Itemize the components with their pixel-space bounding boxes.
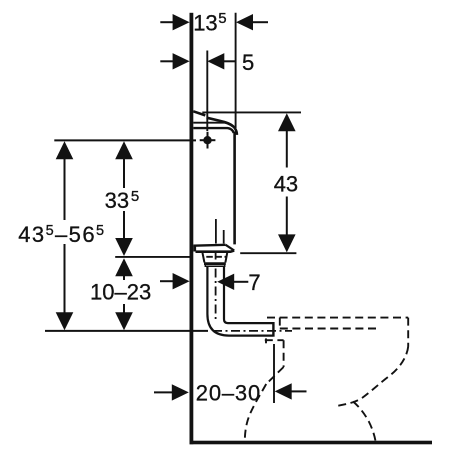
dim 5 right leader xyxy=(223,60,235,62)
cistern body top edge xyxy=(193,128,234,133)
dim 7 left arrowhead xyxy=(173,273,190,289)
hidden line in nut (dashed) xyxy=(206,256,226,258)
pipe vertical centerline (dash-dot) xyxy=(215,251,217,323)
svg-text:7: 7 xyxy=(248,270,260,295)
toilet pedestal front dashed xyxy=(245,384,266,441)
dim 43 lower stem xyxy=(286,197,288,236)
dim 5 right arrowhead xyxy=(207,53,224,69)
dim 43.5-56.5 top arrowhead xyxy=(56,141,74,159)
flush valve nut bottom band xyxy=(204,262,226,265)
dim 10-23 lower stem xyxy=(123,304,125,314)
cistern inner line 2 xyxy=(223,230,225,244)
dim 43 upper stem xyxy=(286,130,288,168)
dim 7 right arrowhead xyxy=(217,274,234,290)
svg-text:435–565: 435–565 xyxy=(18,222,105,247)
toilet spud left vertical dashed xyxy=(265,338,267,343)
dim 20-30 left leader xyxy=(154,391,173,393)
dim 10-23 top arrowhead xyxy=(115,258,133,276)
cistern inner line 1 xyxy=(215,219,217,244)
toilet spud right vertical dashed xyxy=(283,340,285,367)
dim 7 right leader xyxy=(233,281,248,283)
toilet spud bottom line dashed xyxy=(265,339,284,341)
dim 20-30 extension line xyxy=(273,344,275,403)
toilet spud slant dashed xyxy=(266,367,283,384)
dim 33.5 lower stem xyxy=(123,211,125,239)
flush valve collar xyxy=(205,265,224,266)
dim 20-30 left arrowhead xyxy=(172,384,189,400)
dim 5 left leader xyxy=(160,60,174,62)
dim 43.5-56.5 upper stem xyxy=(64,158,66,220)
mounting hole crosshair circle xyxy=(203,136,211,144)
flush pipe outer (left) wall and elbow xyxy=(207,266,272,335)
toilet top rim dashed xyxy=(267,317,408,319)
flush pipe end cap xyxy=(272,322,274,337)
svg-text:43: 43 xyxy=(274,172,298,197)
dim 43 bottom arrowhead xyxy=(278,234,296,252)
toilet lower rim line dashed xyxy=(280,328,378,330)
cistern lid seam line xyxy=(193,122,226,124)
dim 43 top arrowhead xyxy=(278,113,296,131)
left middle reference line xyxy=(115,256,190,258)
crosshair vertical tick xyxy=(207,132,209,149)
dim 7 left leader xyxy=(160,280,174,282)
svg-text:5: 5 xyxy=(131,188,139,205)
svg-text:13: 13 xyxy=(193,11,217,36)
toilet rim right vertical dashed xyxy=(407,318,409,347)
cistern front face xyxy=(233,132,236,245)
dim 13.5 left leader xyxy=(160,21,174,23)
left top reference line xyxy=(54,139,196,141)
dim 5 extension line xyxy=(206,51,208,132)
cistern lid top front curve xyxy=(207,118,237,135)
toilet rim left vertical dashed xyxy=(279,318,281,329)
flush valve nut left side xyxy=(203,253,205,263)
crosshair horizontal tick xyxy=(200,139,216,141)
toilet pedestal back dashed xyxy=(353,402,375,441)
dim 10-23 bottom arrowhead xyxy=(115,312,133,330)
dim 33.5 top arrowhead xyxy=(115,141,133,159)
dim 13.5 extension line (cistern front) xyxy=(235,13,237,128)
svg-text:33: 33 xyxy=(105,188,129,213)
cistern lid top back edge xyxy=(193,111,205,115)
svg-text:10–23: 10–23 xyxy=(90,280,151,305)
flush pipe inner (right) wall xyxy=(224,266,273,323)
dim 43.5-56.5 lower stem xyxy=(64,244,66,314)
dim 13.5 right leader xyxy=(252,21,268,23)
svg-text:5: 5 xyxy=(242,50,254,75)
dim 10-23 upper stem xyxy=(123,275,125,280)
dim 43 top reference line xyxy=(202,111,301,113)
toilet bowl underside curve dashed xyxy=(334,347,408,407)
svg-text:20–30: 20–30 xyxy=(196,380,261,405)
dim 5 left arrowhead xyxy=(173,53,190,69)
dim 33.5 upper stem xyxy=(123,158,125,188)
dim 43 bottom reference line xyxy=(240,252,296,254)
floor xyxy=(190,441,433,445)
wall xyxy=(190,13,194,444)
cistern bottom flange bevel xyxy=(226,245,235,251)
pipe horizontal centerline (dash-dot) xyxy=(213,330,292,332)
left bottom reference line xyxy=(45,330,208,332)
flush valve nut right side xyxy=(225,253,227,263)
dim 43.5-56.5 bottom arrowhead xyxy=(56,312,74,330)
dim 13.5 right arrowhead xyxy=(236,14,253,30)
svg-text:5: 5 xyxy=(218,10,226,27)
cistern bottom flange underside xyxy=(196,251,235,252)
dim 33.5 bottom arrowhead xyxy=(115,238,133,256)
dim 20-30 right arrowhead xyxy=(275,383,292,399)
dim 13.5 left arrowhead xyxy=(173,14,190,30)
dim 20-30 right leader xyxy=(291,390,307,392)
flange left block xyxy=(193,246,196,251)
cistern bottom edge xyxy=(193,244,225,247)
